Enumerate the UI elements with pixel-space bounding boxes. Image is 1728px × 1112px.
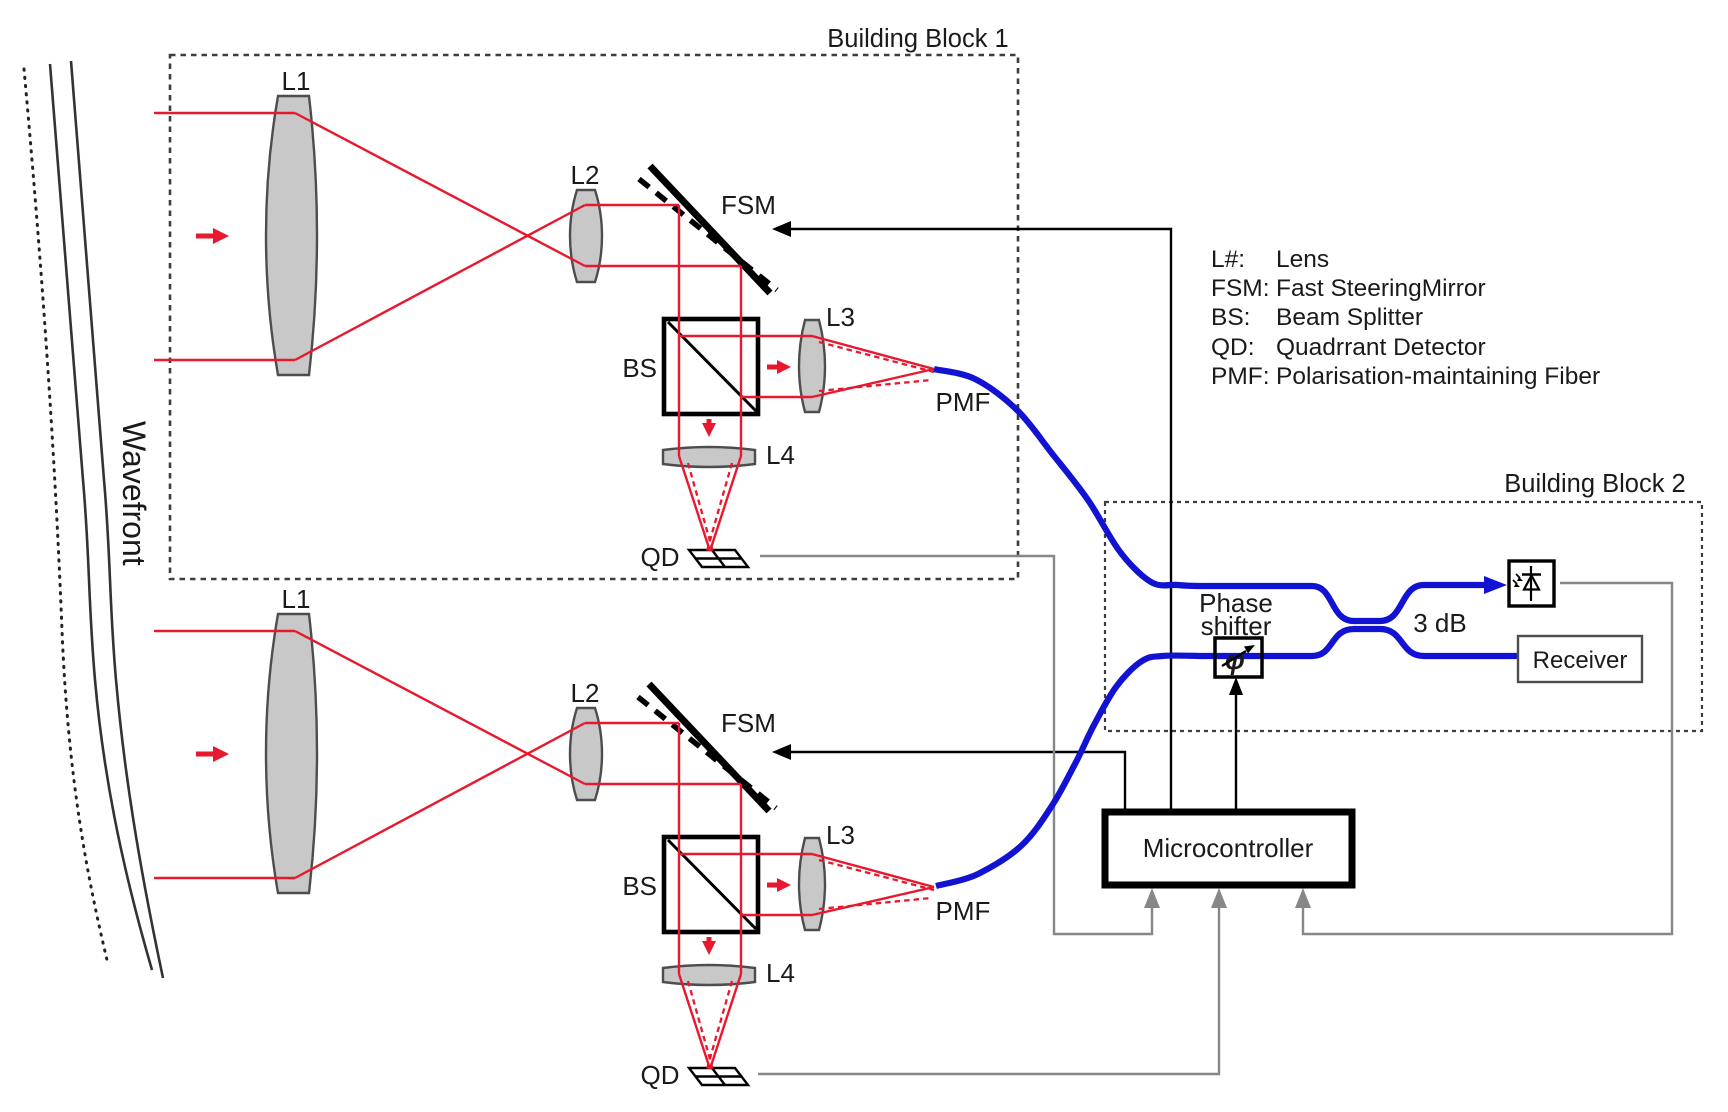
- wavefront solid curve 1: [50, 64, 152, 970]
- dashed ray: upper tilted beam L3 top: [819, 342, 934, 372]
- svg-text:Fast SteeringMirror: Fast SteeringMirror: [1276, 275, 1486, 302]
- svg-text:L#:: L#:: [1211, 246, 1245, 273]
- dashed ray: upper tilted beam L4 left: [688, 463, 713, 552]
- QD feedback line lower (gray): [758, 906, 1219, 1074]
- receiver box: [1518, 636, 1642, 682]
- svg-text:Quadrrant Detector: Quadrrant Detector: [1276, 334, 1486, 361]
- svg-text:Lens: Lens: [1276, 246, 1329, 273]
- ray: upper FSM down through BS left: [678, 205, 680, 456]
- Building Block 2 dashed box: [1105, 502, 1702, 731]
- svg-text:shifter: shifter: [1201, 611, 1272, 641]
- ray: upper L3 top to PMF focus: [812, 336, 934, 369]
- svg-text:L3: L3: [826, 302, 855, 332]
- red arrow BS down (upper): [702, 419, 716, 437]
- FSM control line upper: [789, 229, 1171, 812]
- ray: lower L3 top to PMF focus: [812, 854, 934, 887]
- FSM control line lower: [789, 752, 1125, 812]
- ray: lower L3 bottom to PMF focus: [812, 887, 934, 915]
- phase shifter box: [1215, 638, 1262, 677]
- svg-text:BS: BS: [622, 353, 657, 383]
- wavefront solid curve 2: [71, 61, 163, 978]
- dashed ray: upper tilted beam L3 bottom: [819, 380, 931, 391]
- Building Block 1 dashed box: [170, 55, 1018, 579]
- lens L3 (lower): [799, 838, 825, 930]
- ray: lower FSM down through BS right: [740, 784, 742, 974]
- svg-text:QD: QD: [641, 1060, 680, 1090]
- red beam rays (lower): [154, 631, 934, 1069]
- ray: upper L2 top to FSM: [585, 204, 679, 206]
- svg-text:Wavefront: Wavefront: [116, 421, 152, 566]
- ray: upper L3 bottom to PMF focus: [812, 369, 934, 397]
- ray: lower input beam top: [154, 630, 295, 632]
- red arrow into L1 (lower): [196, 746, 229, 762]
- svg-text:L3: L3: [826, 820, 855, 850]
- dashed ray: lower tilted beam L3 top: [819, 860, 934, 890]
- quadrant detector QD (lower): [689, 1068, 748, 1085]
- ray: lower L1 top to L2: [295, 631, 585, 784]
- detector feedback line (gray): [1303, 583, 1672, 934]
- ray: lower L4 left to QD focus: [679, 974, 710, 1069]
- lens L4 (lower): [663, 965, 755, 985]
- ray: upper BS to L3 top: [679, 335, 812, 337]
- svg-text:PMF:: PMF:: [1211, 363, 1270, 390]
- svg-text:3 dB: 3 dB: [1413, 608, 1467, 638]
- ray: upper FSM down through BS right: [740, 266, 742, 456]
- ray: upper L1 bottom to L2: [295, 205, 585, 360]
- FSM mirror solid (lower): [649, 684, 769, 811]
- lens L1 (upper): [266, 96, 317, 375]
- lens L2 (upper): [570, 190, 602, 282]
- ray: lower L1 bottom to L2: [295, 723, 585, 878]
- quadrant detector QD (upper): [689, 550, 748, 567]
- ray: upper L4 right to QD focus: [710, 456, 741, 551]
- PMF fiber lower: [936, 629, 1518, 886]
- lens L4 (upper): [663, 447, 755, 467]
- svg-text:L1: L1: [282, 66, 311, 96]
- red arrow BS down (lower): [702, 937, 716, 955]
- lens L1 (lower): [266, 614, 317, 893]
- dashed ray: upper tilted beam L4 right: [707, 463, 732, 551]
- beam splitter BS (upper): [664, 319, 758, 414]
- svg-text:FSM: FSM: [721, 708, 776, 738]
- svg-text:QD:: QD:: [1211, 334, 1255, 361]
- phase shifter control line: [1235, 690, 1237, 812]
- svg-text:Beam Splitter: Beam Splitter: [1276, 304, 1423, 331]
- svg-text:L2: L2: [571, 678, 600, 708]
- lens L2 (lower): [570, 708, 602, 800]
- svg-text:PMF: PMF: [936, 387, 991, 417]
- legend text: [1211, 246, 1600, 390]
- svg-text:L2: L2: [571, 160, 600, 190]
- dashed ray: lower tilted beam L3 bottom: [819, 898, 931, 909]
- microcontroller box: [1105, 812, 1352, 885]
- FSM mirror dashed (lower): [638, 697, 776, 808]
- lens L3 (upper): [799, 320, 825, 412]
- svg-text:QD: QD: [641, 542, 680, 572]
- photodiode box: [1509, 561, 1554, 606]
- FSM mirror solid (upper): [650, 166, 770, 293]
- ray: lower L2 bottom to FSM: [585, 783, 741, 785]
- svg-text:Building Block 1: Building Block 1: [827, 25, 1008, 53]
- red dashed tilted rays (upper): [688, 342, 934, 552]
- svg-text:BS: BS: [622, 871, 657, 901]
- QD feedback line upper (gray): [760, 556, 1152, 934]
- svg-text:Polarisation-maintaining Fiber: Polarisation-maintaining Fiber: [1276, 363, 1600, 390]
- photodiode symbol: [1513, 566, 1541, 601]
- svg-text:L1: L1: [282, 584, 311, 614]
- svg-text:φ: φ: [1225, 644, 1245, 675]
- red arrow BS to L3 (lower): [767, 878, 791, 892]
- ray: upper input beam top: [154, 112, 295, 114]
- ray: upper L1 top to L2: [295, 113, 585, 266]
- ray: upper input beam bottom: [154, 359, 295, 361]
- ray: lower L4 right to QD focus: [710, 974, 741, 1069]
- red beam rays (upper): [154, 113, 934, 551]
- svg-text:L4: L4: [766, 440, 795, 470]
- dashed ray: lower tilted beam L4 left: [688, 981, 713, 1070]
- wavefront dotted curve: [24, 69, 107, 960]
- FSM mirror dashed (upper): [639, 179, 777, 290]
- ray: lower L2 top to FSM: [585, 722, 679, 724]
- ray: upper L4 left to QD focus: [679, 456, 710, 551]
- ray: lower input beam bottom: [154, 877, 295, 879]
- ray: lower FSM down through BS left: [678, 723, 680, 974]
- dashed ray: lower tilted beam L4 right: [707, 981, 732, 1069]
- svg-text:FSM: FSM: [721, 190, 776, 220]
- svg-text:L4: L4: [766, 958, 795, 988]
- svg-text:Receiver: Receiver: [1533, 647, 1628, 674]
- ray: lower BS to L3 top: [679, 853, 812, 855]
- red dashed tilted rays (lower): [688, 860, 934, 1070]
- svg-text:FSM:: FSM:: [1211, 275, 1270, 302]
- red arrow into L1 (upper): [196, 228, 229, 244]
- svg-text:Building Block 2: Building Block 2: [1504, 470, 1685, 498]
- blue arrow into detector: [1484, 576, 1507, 594]
- svg-text:BS:: BS:: [1211, 304, 1251, 331]
- ray: upper L2 bottom to FSM: [585, 265, 741, 267]
- PMF fiber upper: [934, 369, 1486, 621]
- ray: upper BS to L3 bottom: [741, 396, 812, 398]
- beam splitter BS (lower): [664, 837, 758, 932]
- red arrow BS to L3 (upper): [767, 360, 791, 374]
- svg-text:Microcontroller: Microcontroller: [1143, 833, 1314, 863]
- ray: lower BS to L3 bottom: [741, 914, 812, 916]
- svg-text:PMF: PMF: [936, 896, 991, 926]
